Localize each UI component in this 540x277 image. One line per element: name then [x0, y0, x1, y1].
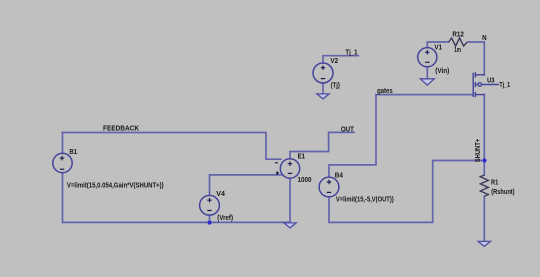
svg-text:(Tj): (Tj) [331, 82, 340, 89]
svg-text:B1: B1 [69, 149, 77, 156]
svg-text:V1: V1 [434, 44, 442, 51]
svg-text:V=limit(15,0.054,Gain*V(SHUNT+: V=limit(15,0.054,Gain*V(SHUNT+)) [67, 182, 164, 189]
svg-text:1000: 1000 [298, 177, 312, 184]
svg-text:V2: V2 [330, 58, 338, 65]
svg-text:Tj_1: Tj_1 [499, 82, 510, 89]
svg-text:(Vin): (Vin) [435, 68, 449, 75]
svg-text:OUT: OUT [341, 126, 355, 133]
svg-text:(Vref): (Vref) [217, 215, 233, 222]
svg-text:FEEDBACK: FEEDBACK [103, 126, 139, 133]
svg-text:V=limit(15,-5,V(OUT)): V=limit(15,-5,V(OUT)) [336, 196, 394, 203]
svg-text:(Rshunt): (Rshunt) [491, 189, 514, 196]
svg-text:R12: R12 [452, 32, 464, 39]
svg-text:B4: B4 [335, 173, 343, 180]
svg-text:U3: U3 [487, 77, 494, 84]
svg-text:R1: R1 [491, 179, 498, 186]
svg-text:V4: V4 [216, 191, 225, 198]
svg-text:SHUNT+: SHUNT+ [475, 139, 482, 162]
svg-text:1m: 1m [454, 47, 461, 54]
svg-text:gates: gates [377, 88, 393, 95]
svg-text:N: N [482, 35, 487, 42]
svg-text:Tj_1: Tj_1 [345, 49, 357, 56]
svg-text:E1: E1 [298, 153, 306, 160]
